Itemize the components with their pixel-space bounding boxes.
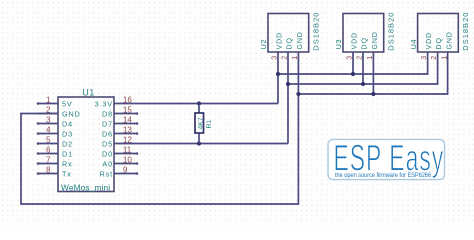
- svg-text:1: 1: [46, 95, 51, 104]
- sensor U3 DS18B20 body: [343, 14, 384, 53]
- U1 pin 4 stub: [37, 133, 58, 135]
- svg-text:1: 1: [290, 56, 299, 60]
- svg-text:D5: D5: [102, 139, 113, 148]
- svg-text:DS18B20: DS18B20: [386, 12, 395, 51]
- wire U2 DQ vertical: [287, 52, 289, 144]
- svg-text:GND: GND: [62, 109, 81, 118]
- resistor R1 body: [195, 113, 204, 133]
- ESP Easy logo box: [328, 139, 445, 179]
- svg-text:12: 12: [123, 135, 133, 144]
- wire U4 VDD pin drop: [427, 52, 429, 75]
- svg-text:DQ: DQ: [436, 37, 443, 49]
- svg-text:GND: GND: [297, 31, 304, 49]
- U1 pin 15 stub: [114, 113, 138, 115]
- wire U3 DQ pin drop: [362, 52, 364, 84]
- svg-text:R1: R1: [206, 120, 213, 129]
- wire DQ horizontal (U1 pin12 D5 to U2 DQ): [138, 143, 288, 145]
- svg-text:3: 3: [269, 56, 278, 60]
- svg-text:3: 3: [344, 56, 353, 60]
- svg-text:D6: D6: [102, 129, 113, 138]
- junction GND bus / U3: [371, 92, 375, 96]
- svg-text:2: 2: [429, 56, 438, 60]
- sensor U2 DS18B20 body: [268, 14, 309, 53]
- U1 pin 5 stub: [37, 143, 58, 145]
- wire U3 VDD pin drop: [352, 52, 354, 74]
- junction DQ bus / U2: [286, 82, 290, 86]
- svg-text:2: 2: [354, 56, 363, 60]
- svg-text:GND: GND: [446, 31, 453, 49]
- svg-text:U4: U4: [409, 39, 418, 49]
- wire 3.3V horizontal (U1 pin16 to U2 VDD): [138, 103, 278, 105]
- junction GND bus / U2: [296, 92, 300, 96]
- svg-text:U3: U3: [334, 39, 343, 49]
- U1 pin 14 stub: [114, 123, 138, 125]
- wire U3 GND pin drop: [372, 52, 374, 94]
- svg-text:A0: A0: [102, 159, 113, 168]
- svg-text:9: 9: [123, 165, 128, 174]
- U1 pin 7 stub: [37, 163, 58, 165]
- svg-text:3.3V: 3.3V: [95, 99, 113, 108]
- U1 pin 3 stub: [37, 123, 58, 125]
- svg-text:Rx: Rx: [62, 159, 73, 168]
- U1 pin 6 stub: [37, 153, 58, 155]
- svg-text:WeMos_mini: WeMos_mini: [61, 183, 110, 193]
- wire U4 DQ pin drop: [437, 52, 439, 85]
- svg-text:VDD: VDD: [426, 32, 433, 49]
- svg-text:1: 1: [439, 56, 448, 60]
- svg-text:13: 13: [123, 125, 133, 134]
- wire GND U1 pin2 horizontal: [20, 113, 58, 115]
- U1 pin 13 stub: [114, 133, 138, 135]
- svg-text:DS18B20: DS18B20: [461, 12, 470, 51]
- svg-text:the open source firmware for E: the open source firmware for ESP8266: [335, 173, 432, 179]
- svg-text:1: 1: [365, 56, 374, 60]
- svg-text:DQ: DQ: [286, 37, 293, 49]
- U1 pin 8 stub: [37, 173, 58, 175]
- svg-text:D8: D8: [102, 109, 113, 118]
- IC U1 WeMos_mini body: [58, 97, 114, 192]
- U1 pin 16 stub: [114, 103, 138, 105]
- svg-text:D1: D1: [62, 149, 73, 158]
- svg-text:D0: D0: [102, 149, 113, 158]
- junction DQ bus / U3: [361, 82, 365, 86]
- wire GND left vertical: [20, 113, 22, 204]
- svg-text:3: 3: [419, 56, 428, 60]
- resistor R1 lead bottom: [198, 133, 200, 144]
- wire VDD bus: [278, 73, 428, 75]
- wire U4 GND pin drop: [447, 52, 449, 95]
- svg-text:VDD: VDD: [276, 32, 283, 49]
- svg-text:4K7: 4K7: [197, 117, 204, 129]
- junction VDD bus / U3: [351, 72, 355, 76]
- svg-text:U2: U2: [259, 39, 268, 49]
- svg-text:16: 16: [123, 95, 133, 104]
- svg-text:5: 5: [46, 135, 51, 144]
- junction VDD bus / U2: [276, 72, 280, 76]
- svg-text:6: 6: [46, 145, 51, 154]
- U1 pin 11 stub: [114, 153, 138, 155]
- svg-text:3: 3: [46, 115, 51, 124]
- svg-text:D4: D4: [62, 119, 73, 128]
- svg-text:U1: U1: [82, 88, 95, 98]
- sensor U4 DS18B20 body: [418, 14, 459, 53]
- svg-text:Tx: Tx: [62, 169, 72, 178]
- U1 pin 9 stub: [114, 173, 138, 175]
- U1 pin 12 stub: [114, 143, 138, 145]
- junction R1 bottom on DQ: [197, 141, 201, 145]
- svg-text:Rst: Rst: [100, 169, 113, 178]
- wire U2 GND vertical: [297, 52, 299, 205]
- svg-text:14: 14: [123, 115, 133, 124]
- svg-text:DS18B20: DS18B20: [311, 12, 320, 51]
- svg-text:DQ: DQ: [361, 37, 368, 49]
- svg-text:5V: 5V: [62, 99, 73, 108]
- wire GND bottom horizontal: [20, 203, 298, 205]
- svg-text:8: 8: [46, 165, 51, 174]
- svg-text:D7: D7: [102, 119, 113, 128]
- svg-text:D2: D2: [62, 139, 73, 148]
- U1 pin 1 stub: [37, 103, 58, 105]
- svg-text:7: 7: [46, 155, 51, 164]
- svg-text:15: 15: [123, 105, 133, 114]
- wire GND bus: [298, 93, 447, 95]
- wire U2 VDD vertical: [277, 52, 279, 104]
- resistor R1 lead top: [198, 104, 200, 114]
- wire DQ bus: [288, 83, 438, 85]
- svg-text:D3: D3: [62, 129, 73, 138]
- svg-text:VDD: VDD: [351, 32, 358, 49]
- svg-text:10: 10: [123, 155, 133, 164]
- svg-text:GND: GND: [372, 31, 379, 49]
- U1 pin 2 stub: [37, 113, 58, 115]
- U1 pin 10 stub: [114, 163, 138, 165]
- svg-text:2: 2: [279, 56, 288, 60]
- svg-text:4: 4: [46, 125, 51, 134]
- svg-text:11: 11: [123, 145, 132, 154]
- junction R1 top on 3.3V: [197, 101, 201, 105]
